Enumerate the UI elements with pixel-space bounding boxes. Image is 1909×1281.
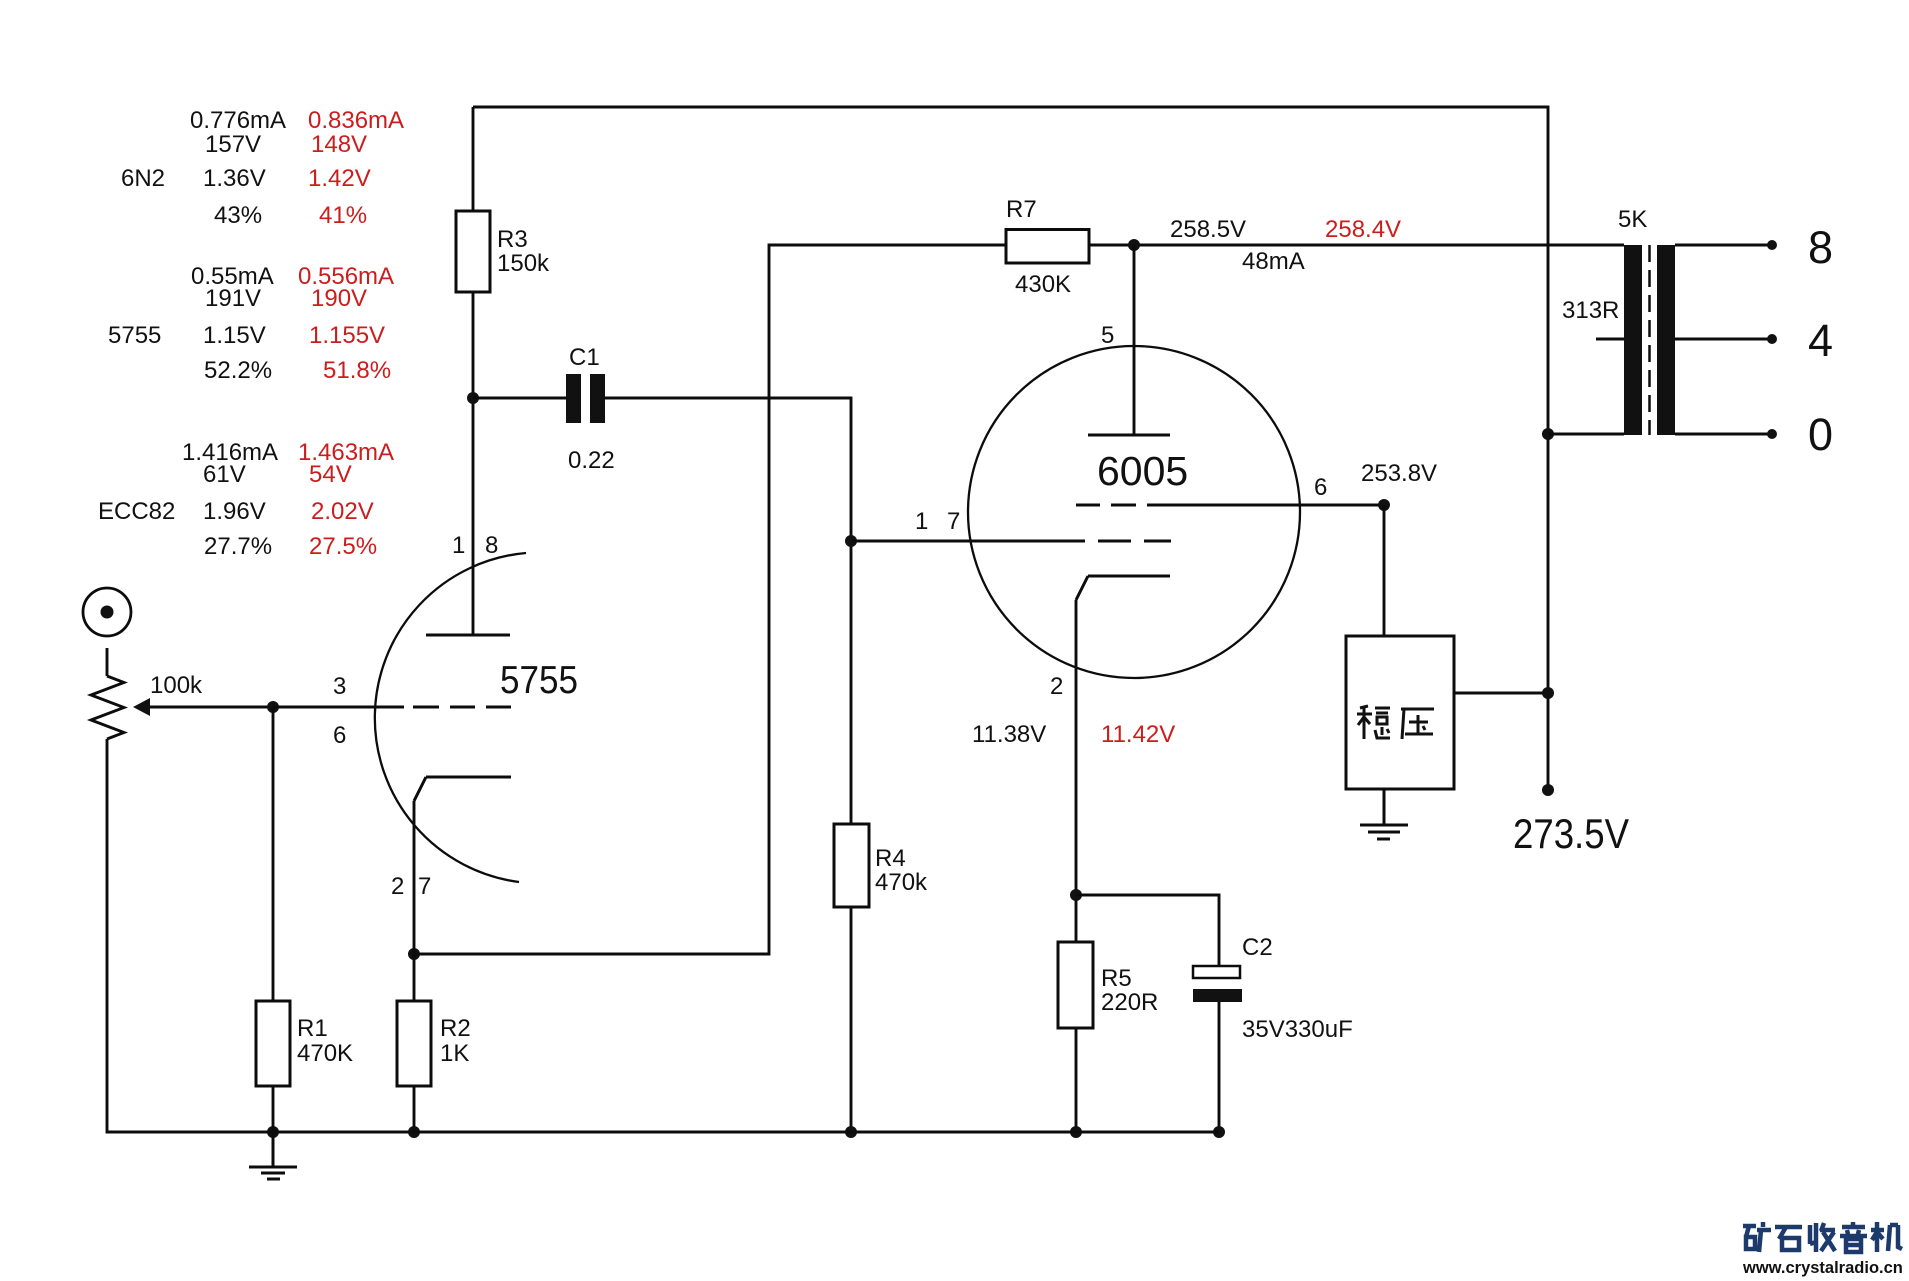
wire jack to pot	[106, 648, 109, 676]
svg-text:6: 6	[1314, 474, 1327, 501]
svg-text:R5: R5	[1101, 965, 1132, 992]
capacitor C2 minus plate	[1193, 989, 1242, 1002]
wire R7 to transformer	[1089, 244, 1624, 247]
svg-text:150k: 150k	[497, 250, 550, 277]
resistor R1	[256, 1001, 290, 1086]
svg-text:430K: 430K	[1015, 271, 1071, 298]
grid g1 dashes 6005	[1098, 540, 1171, 543]
wire R4 bottom to ground rail	[850, 907, 853, 1132]
svg-text:157V: 157V	[205, 131, 261, 158]
terminal 0	[1767, 429, 1777, 439]
svg-text:R4: R4	[875, 845, 906, 872]
resistor R4	[834, 824, 869, 907]
svg-text:313R: 313R	[1562, 297, 1619, 324]
svg-text:220R: 220R	[1101, 989, 1158, 1016]
regulator box U1	[1346, 636, 1454, 789]
terminal 4	[1767, 334, 1777, 344]
svg-text:43%: 43%	[214, 202, 262, 229]
wire node to 5755 plate	[472, 398, 475, 635]
wire cathode to R5	[1075, 600, 1078, 942]
svg-text:1: 1	[452, 532, 465, 559]
svg-text:54V: 54V	[309, 461, 352, 488]
wire regulator to B+ rail	[1454, 692, 1548, 695]
svg-text:1K: 1K	[440, 1040, 469, 1067]
pot wiper arrow	[133, 698, 150, 716]
svg-text:190V: 190V	[311, 285, 367, 312]
svg-text:2: 2	[391, 873, 404, 900]
wire secondary 4	[1675, 338, 1772, 341]
svg-text:48mA: 48mA	[1242, 248, 1305, 275]
svg-text:1.96V: 1.96V	[203, 498, 266, 525]
svg-text:258.5V: 258.5V	[1170, 216, 1246, 243]
transformer core dashed	[1648, 245, 1651, 435]
wire pin 6 to regulator node	[1147, 504, 1384, 507]
node rail C2	[1213, 1126, 1225, 1138]
wire R1 to rail	[272, 1086, 275, 1132]
svg-text:7: 7	[418, 873, 431, 900]
wire R5 to ground rail	[1075, 1028, 1078, 1132]
capacitor C1	[566, 374, 605, 423]
char kuang	[1743, 1222, 1771, 1252]
svg-text:470k: 470k	[875, 869, 928, 896]
6005 cathode	[1076, 576, 1170, 600]
wire node to R1	[272, 707, 275, 1001]
node rail R2	[408, 1126, 420, 1138]
grid g2 dashes 6005	[1076, 504, 1136, 507]
svg-text:R7: R7	[1006, 196, 1037, 223]
svg-text:1.155V: 1.155V	[309, 322, 385, 349]
wire 6005 grid g1	[851, 540, 1085, 543]
char yin	[1840, 1222, 1867, 1252]
svg-text:11.42V: 11.42V	[1101, 721, 1175, 748]
node 6005 plate junction	[1128, 239, 1140, 251]
input jack J1	[83, 588, 131, 636]
svg-text:ECC82: ECC82	[98, 498, 175, 525]
wire riser to R4	[850, 541, 853, 824]
node 5755 cathode junction	[408, 948, 420, 960]
svg-text:R1: R1	[297, 1015, 328, 1042]
svg-text:470K: 470K	[297, 1040, 353, 1067]
svg-text:1.42V: 1.42V	[308, 165, 371, 192]
svg-text:www.crystalradio.cn: www.crystalradio.cn	[1742, 1259, 1903, 1277]
svg-text:27.5%: 27.5%	[309, 533, 377, 560]
node cathode/C2 junction	[1070, 889, 1082, 901]
5755 cathode	[414, 777, 511, 801]
node R3/C1 junction	[467, 392, 479, 404]
wire C1 to grid riser	[605, 398, 851, 541]
char shi	[1775, 1227, 1802, 1250]
svg-text:8: 8	[485, 532, 498, 559]
tube 6005 envelope	[968, 346, 1300, 678]
svg-text:8: 8	[1808, 222, 1833, 273]
wire node to regulator box	[1383, 505, 1386, 636]
svg-text:5755: 5755	[500, 659, 578, 702]
node 6005 grid junction	[845, 535, 857, 547]
node rail R1	[267, 1126, 279, 1138]
wire C2 to ground rail	[1218, 1002, 1221, 1132]
wire 313R tap	[1596, 338, 1624, 341]
svg-text:41%: 41%	[319, 202, 367, 229]
node pin6 253.8V	[1378, 499, 1390, 511]
wire R3 top	[472, 107, 475, 211]
terminal 8	[1767, 240, 1777, 250]
svg-text:52.2%: 52.2%	[204, 357, 272, 384]
wire to C2	[1076, 895, 1219, 966]
svg-text:3: 3	[333, 673, 346, 700]
svg-text:27.7%: 27.7%	[204, 533, 272, 560]
svg-text:191V: 191V	[205, 285, 261, 312]
svg-text:11.38V: 11.38V	[972, 721, 1046, 748]
svg-text:C2: C2	[1242, 934, 1273, 961]
wire feedback loop	[414, 245, 1006, 954]
wire secondary 0	[1675, 433, 1772, 436]
wire cathode 5755 to R2	[413, 801, 416, 1001]
capacitor C2 plus plate	[1193, 966, 1240, 978]
wire R2 to rail	[413, 1086, 416, 1132]
svg-text:0.776mA: 0.776mA	[190, 107, 286, 134]
svg-text:R3: R3	[497, 226, 528, 253]
svg-text:6005: 6005	[1097, 448, 1188, 494]
wire primary bottom	[1548, 433, 1624, 436]
svg-text:2.02V: 2.02V	[311, 498, 374, 525]
node transformer primary bottom	[1542, 428, 1554, 440]
wire pot bottom and ground bus rail	[107, 739, 1219, 1132]
6005 plate	[1088, 434, 1170, 437]
watermark crystalradio logo	[1743, 1222, 1902, 1252]
svg-text:2: 2	[1050, 673, 1063, 700]
svg-text:148V: 148V	[311, 131, 367, 158]
resistor R2	[397, 1001, 431, 1086]
transformer T1 primary bar	[1624, 245, 1642, 435]
wire secondary 8	[1675, 244, 1772, 247]
ground main	[249, 1132, 297, 1179]
tube 5755 envelope	[375, 553, 526, 882]
node rail R4	[845, 1126, 857, 1138]
svg-text:7: 7	[947, 508, 960, 535]
svg-text:5K: 5K	[1618, 206, 1647, 233]
wire node to C1	[473, 397, 566, 400]
svg-text:5755: 5755	[108, 322, 161, 349]
transformer T1 secondary bar	[1657, 245, 1675, 435]
grid dashes 5755	[413, 706, 511, 709]
regulator label wenya (stabilizer)	[1357, 706, 1434, 739]
char shou	[1810, 1223, 1835, 1252]
svg-text:273.5V: 273.5V	[1513, 810, 1629, 857]
svg-text:100k: 100k	[150, 672, 203, 699]
svg-text:6N2: 6N2	[121, 165, 165, 192]
svg-text:1: 1	[915, 508, 928, 535]
resistor R5	[1058, 942, 1093, 1028]
svg-text:6: 6	[333, 722, 346, 749]
wire R3 bottom to node	[472, 292, 475, 398]
wire pin 5 to plate	[1133, 245, 1136, 435]
5755 plate	[426, 634, 510, 637]
svg-text:253.8V: 253.8V	[1361, 460, 1437, 487]
wire grid 5755	[273, 706, 404, 709]
potentiometer 100k	[91, 676, 124, 739]
svg-text:51.8%: 51.8%	[323, 357, 391, 384]
resistor R3	[456, 211, 490, 292]
ground regulator	[1360, 789, 1408, 839]
node regulator output	[1542, 687, 1554, 699]
svg-text:C1: C1	[569, 344, 600, 371]
svg-text:1.36V: 1.36V	[203, 165, 266, 192]
svg-text:1.15V: 1.15V	[203, 322, 266, 349]
node wiper/R1/grid	[267, 701, 279, 713]
svg-text:35V330uF: 35V330uF	[1242, 1016, 1353, 1043]
svg-text:R2: R2	[440, 1015, 471, 1042]
node 273.5V end	[1542, 784, 1554, 796]
svg-text:4: 4	[1808, 315, 1833, 366]
node rail R5	[1070, 1126, 1082, 1138]
wire top rail B+	[473, 107, 1548, 790]
svg-text:258.4V: 258.4V	[1325, 216, 1401, 243]
svg-text:61V: 61V	[203, 461, 246, 488]
resistor R7	[1006, 230, 1089, 264]
pot wiper wire	[146, 706, 273, 709]
svg-text:0.836mA: 0.836mA	[308, 107, 404, 134]
svg-text:0.22: 0.22	[568, 447, 615, 474]
char ji	[1871, 1222, 1902, 1252]
svg-text:5: 5	[1101, 322, 1114, 349]
svg-text:0: 0	[1808, 409, 1833, 460]
